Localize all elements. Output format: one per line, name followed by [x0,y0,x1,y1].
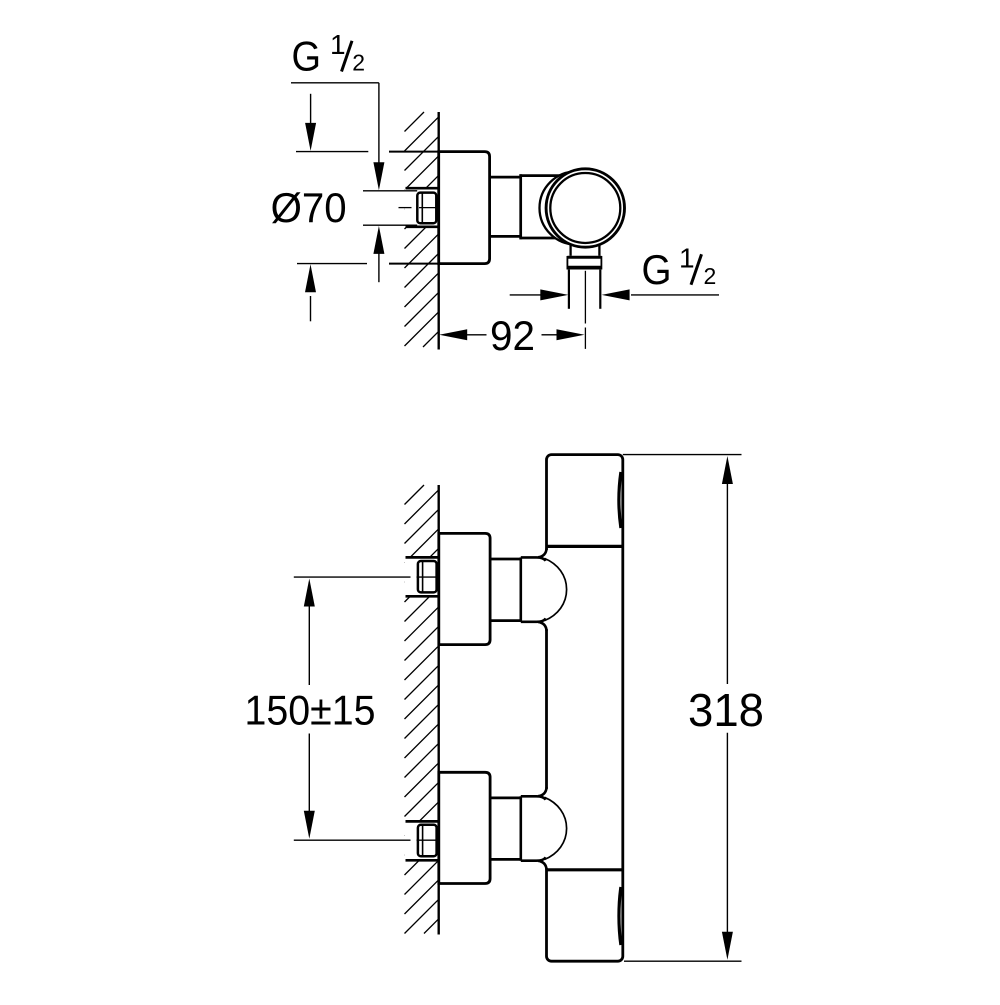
dim G1/2 right text [642,243,717,294]
dim G1/2 right (outlet): arrows [510,294,541,296]
lower ball joint outline (bottom view) [545,789,548,868]
upper in-wall socket (bottom view) [405,557,439,596]
lower wall escutcheon (bottom view) [439,772,490,883]
bottom cap shading arc (bottom view) [619,887,621,945]
svg-text:G: G [642,246,672,293]
bottom cap joint line (bottom view) [547,868,623,871]
lower neck (bottom view) [490,798,521,860]
union nut at wall (top view) [417,193,436,224]
dim O70: extension lines [296,152,368,264]
svg-text:Ø70: Ø70 [271,184,347,231]
top cap shading arc (bottom view) [619,472,621,528]
dim 318: extension lines [623,455,742,962]
upper connection centerline / 150 ext line (bottom view) [294,576,438,578]
valve body (top view) [519,174,584,239]
lower ball joint fill (bottom view) [490,790,567,867]
G1/2 thread extension lines (top view pipe) [363,191,417,225]
wall face line (bottom view) [438,485,440,935]
svg-text:1: 1 [330,29,346,60]
outlet pipe G1/2 (top view) [569,270,600,309]
upper ball joint outline (bottom view) [545,550,548,629]
outlet shank under knob (top view) [571,228,600,256]
upper ball joint fill (bottom view) [490,551,567,628]
mixer body (bottom view) [547,455,623,962]
svg-text:2: 2 [352,49,365,75]
neck between escutcheon and valve body (top view) [490,177,521,236]
outlet centerline (top view) [584,271,586,349]
dim G1/2 top-left text [292,29,366,80]
dim 318: dimension line with gap and arrows [726,483,728,684]
thermostat knob rear flange (top view) [540,172,613,245]
svg-text:318: 318 [688,684,764,736]
svg-text:1: 1 [679,243,695,274]
dim G1/2 top-left: label shelf [291,82,379,84]
dim 92: line with outward arrows [439,329,467,340]
lower union nut (bottom view) [418,825,437,856]
escutcheon edge lines through wall (top view) [389,152,439,264]
wall escutcheon (top view) [439,152,490,264]
upper wall escutcheon (bottom view) [439,533,490,644]
lower connection centerline / 150 ext line (bottom view) [294,839,438,841]
wall face line (top view) [438,112,440,350]
svg-text:2: 2 [704,263,717,289]
dim G1/2 top-left: leader + down arrow at pipe top [378,83,380,166]
centerline of inlet (top view) [399,207,437,209]
thermostat knob inner circle (top view) [550,173,620,243]
dim G1/2 top-left: up arrow at pipe bottom [378,250,380,282]
lower in-wall socket (bottom view) [405,821,439,860]
dim 150+-15: dimension line with gap and arrows [308,606,310,685]
svg-text:150±15: 150±15 [245,686,376,733]
thermostat knob outer circle (top view) [546,169,624,247]
svg-text:92: 92 [490,312,535,359]
upper union nut (bottom view) [418,561,437,592]
dim O70: upper down arrow [310,94,312,126]
svg-text:G: G [292,33,322,80]
wall hatching (bottom view) [405,485,439,934]
wall hatching (top view) [405,112,439,347]
top cap joint line (bottom view) [547,545,623,548]
upper neck (bottom view) [490,559,521,621]
outlet nut / aerator ring (top view) [567,256,601,270]
dim O70: lower up arrow [310,296,312,321]
in-wall socket (top view) [405,188,439,227]
